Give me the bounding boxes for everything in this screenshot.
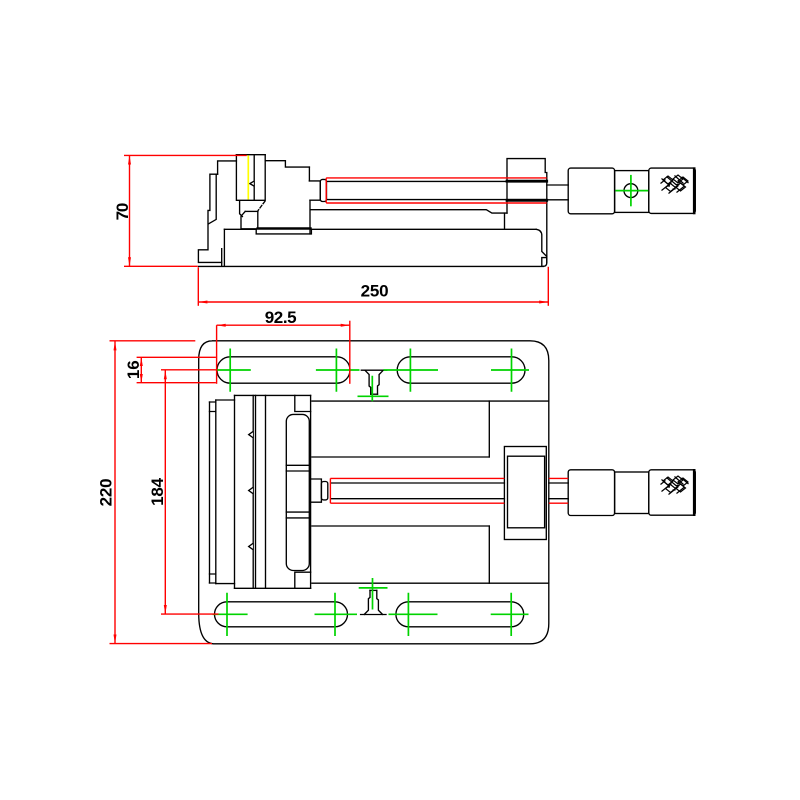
- svg-text:250: 250: [361, 281, 389, 300]
- svg-text:70: 70: [113, 203, 132, 220]
- svg-text:220: 220: [97, 479, 116, 507]
- svg-text:184: 184: [148, 477, 167, 506]
- svg-text:92.5: 92.5: [265, 308, 297, 327]
- svg-text:16: 16: [124, 361, 143, 380]
